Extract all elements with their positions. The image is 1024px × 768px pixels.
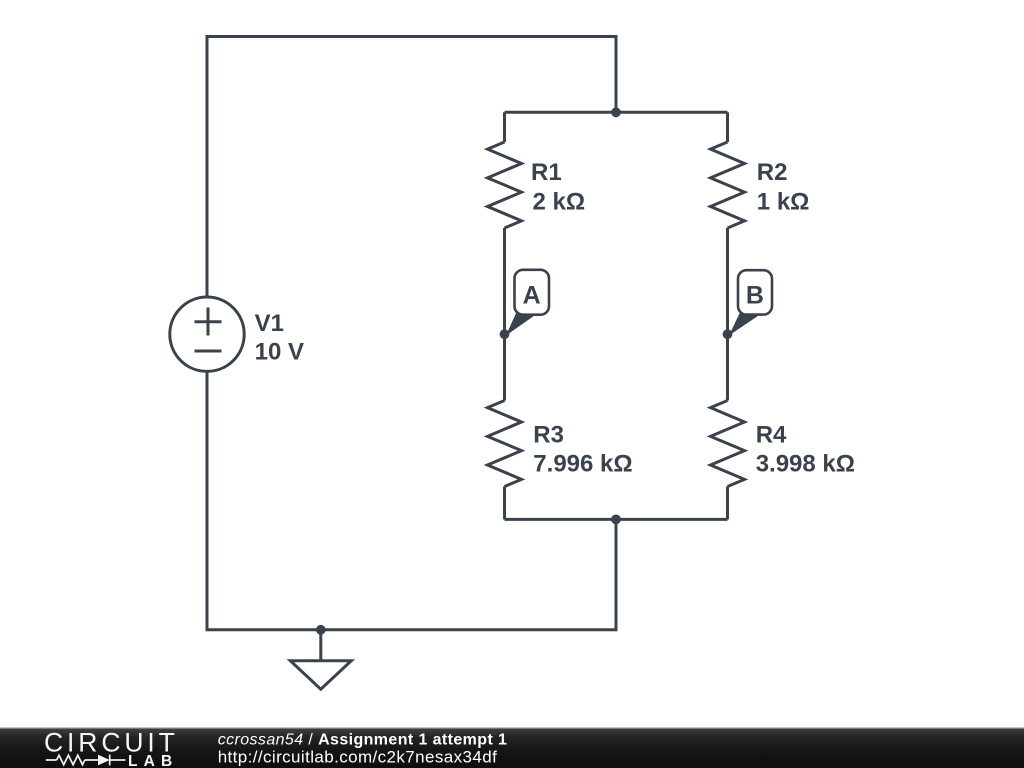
svg-text:R3: R3: [533, 422, 564, 449]
wire R2 to node B: [726, 228, 729, 401]
resistor R1: [488, 142, 522, 228]
node junction bottom: [611, 515, 621, 525]
svg-text:10 V: 10 V: [255, 339, 304, 366]
node B flag: [729, 270, 772, 335]
svg-text:R2: R2: [757, 159, 788, 186]
svg-text:R4: R4: [756, 422, 787, 449]
CircuitLab logo wordmark: [44, 728, 179, 768]
svg-text:1 kΩ: 1 kΩ: [757, 189, 810, 216]
svg-text:R1: R1: [531, 159, 562, 186]
ground: [319, 630, 322, 660]
wire top loop V1 to node: [207, 37, 616, 298]
svg-text:7.996 kΩ: 7.996 kΩ: [533, 450, 632, 477]
svg-text:3.998 kΩ: 3.998 kΩ: [756, 450, 855, 477]
svg-text:V1: V1: [255, 310, 284, 337]
resistor R3: [488, 401, 522, 487]
wire R1 to node A: [503, 228, 506, 401]
svg-text:ccrossan54 / Assignment 1 atte: ccrossan54 / Assignment 1 attempt 1: [218, 732, 508, 749]
node A flag: [506, 270, 549, 336]
svg-text:2 kΩ: 2 kΩ: [533, 189, 586, 216]
wire R3 lower lead: [503, 487, 506, 520]
resistor R2: [711, 142, 745, 228]
svg-text:http://circuitlab.com/c2k7nesa: http://circuitlab.com/c2k7nesax34df: [218, 748, 498, 767]
wire bottom loop to V1: [207, 371, 616, 630]
svg-text:B: B: [746, 282, 764, 310]
wire left branch upper lead: [503, 112, 506, 142]
node B junction: [723, 329, 733, 339]
wire bottom rail: [505, 518, 728, 521]
node junction ground: [316, 625, 326, 635]
node junction top: [611, 107, 621, 117]
footer center text: [218, 732, 508, 767]
wire top rail: [505, 111, 728, 114]
wire R4 lower lead: [726, 487, 729, 520]
wire right branch upper lead: [726, 112, 729, 142]
resistor R4: [711, 401, 745, 487]
logo resistor-diode glyph: [46, 755, 126, 766]
svg-text:A: A: [523, 282, 541, 310]
voltage source V1: [170, 297, 244, 371]
node A junction: [500, 329, 510, 339]
svg-text:LAB: LAB: [128, 753, 178, 768]
